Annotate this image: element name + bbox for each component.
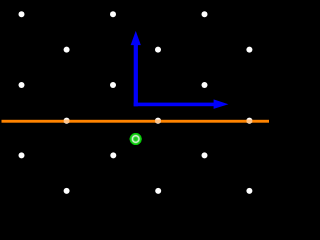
lattice dot row1 (y=14.2): [19, 11, 208, 17]
lattice dot row3 (y=85.0): [19, 82, 208, 88]
lattice dot row5 (y=155.4): [19, 152, 208, 158]
pale blend over on-line dot x=158: [155, 120, 161, 123]
lattice dot row4 on line (y=120.5): [64, 118, 253, 124]
green rotation-point marker (donut): [130, 133, 142, 145]
lattice dot row2 (y=49.6): [64, 47, 253, 53]
blue horizontal vector arrow (right): [134, 99, 229, 109]
pale blend over on-line dot x=66.6: [64, 120, 70, 123]
lattice dot row6 (y=190.9): [64, 188, 253, 194]
blue vertical vector arrow (up): [131, 31, 141, 106]
orange mirror line (full width): [2, 120, 270, 123]
pale blend over on-line dot x=249.4: [247, 120, 253, 123]
